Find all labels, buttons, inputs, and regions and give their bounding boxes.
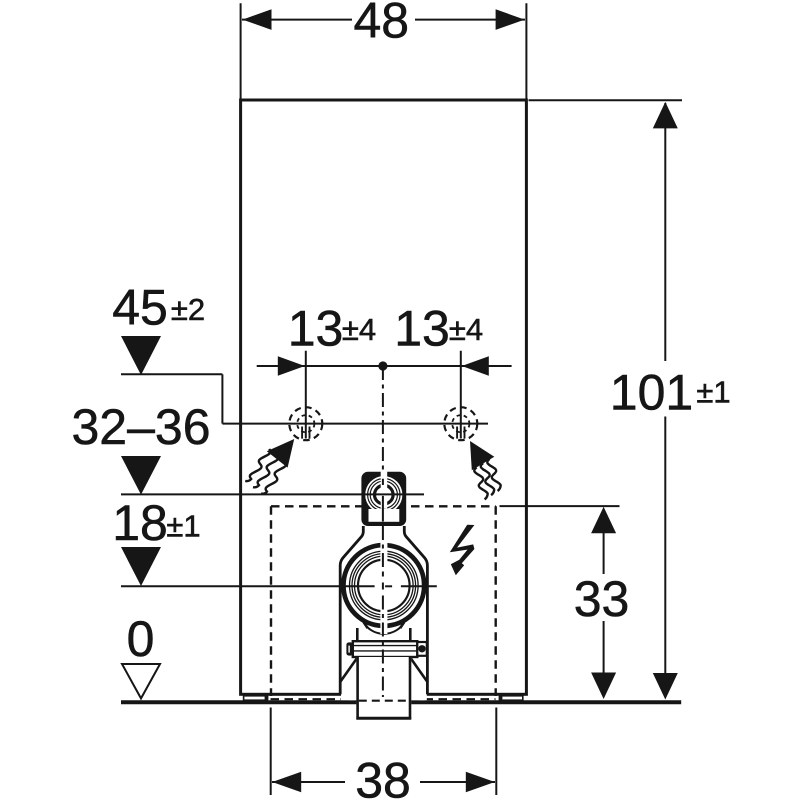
dashed installation zone rectangle	[271, 506, 496, 696]
level line 18	[121, 585, 437, 587]
inner body verticals	[356, 628, 359, 642]
level label 0	[122, 611, 160, 698]
squiggle arrow left	[245, 439, 294, 494]
svg-text:13: 13	[394, 301, 450, 357]
squiggle arrow right	[470, 441, 501, 499]
body white fill	[341, 526, 427, 700]
panel outline	[241, 100, 527, 694]
clamp bar	[353, 641, 418, 657]
svg-text:18: 18	[112, 495, 168, 551]
level label 18	[112, 495, 200, 586]
drain pipe	[356, 657, 411, 720]
svg-text:±1: ±1	[696, 375, 730, 410]
level label 32-36	[71, 399, 210, 495]
svg-text:±2: ±2	[171, 292, 205, 327]
level line 45	[222, 423, 488, 425]
dimension 48 top	[241, 0, 527, 99]
dimension 101 right	[529, 100, 731, 699]
svg-text:45: 45	[112, 280, 168, 336]
level label 45	[112, 280, 222, 424]
flush bend fitting	[340, 470, 428, 720]
big circle rings	[343, 545, 424, 626]
dimension 38 bottom	[271, 708, 497, 800]
svg-text:48: 48	[353, 0, 409, 49]
svg-text:±4: ±4	[449, 312, 483, 347]
water supply circle left	[289, 407, 322, 440]
dimension 33 right	[500, 506, 630, 699]
svg-text:±1: ±1	[166, 509, 200, 544]
svg-text:38: 38	[355, 753, 411, 800]
lightning bolt	[450, 525, 475, 575]
center line vertical	[382, 366, 384, 697]
svg-text:13: 13	[288, 301, 344, 357]
dimension 13+-4	[257, 301, 512, 439]
svg-text:33: 33	[574, 571, 630, 627]
diagonal braces	[340, 658, 357, 682]
centerline halo slots	[381, 470, 388, 493]
svg-text:0: 0	[127, 611, 155, 667]
head	[361, 472, 406, 526]
hidden bottom edge dashed	[271, 698, 496, 700]
cup arcs under circle	[363, 622, 404, 627]
water supply circle right	[444, 407, 477, 440]
neck and shoulders outline	[340, 526, 427, 694]
svg-text:±4: ±4	[342, 312, 376, 347]
panel foot left	[244, 695, 269, 700]
svg-text:101: 101	[610, 365, 693, 421]
level line 32-36	[121, 493, 424, 495]
panel foot right	[499, 695, 523, 700]
floor line	[121, 700, 681, 704]
svg-text:32–36: 32–36	[71, 399, 210, 455]
